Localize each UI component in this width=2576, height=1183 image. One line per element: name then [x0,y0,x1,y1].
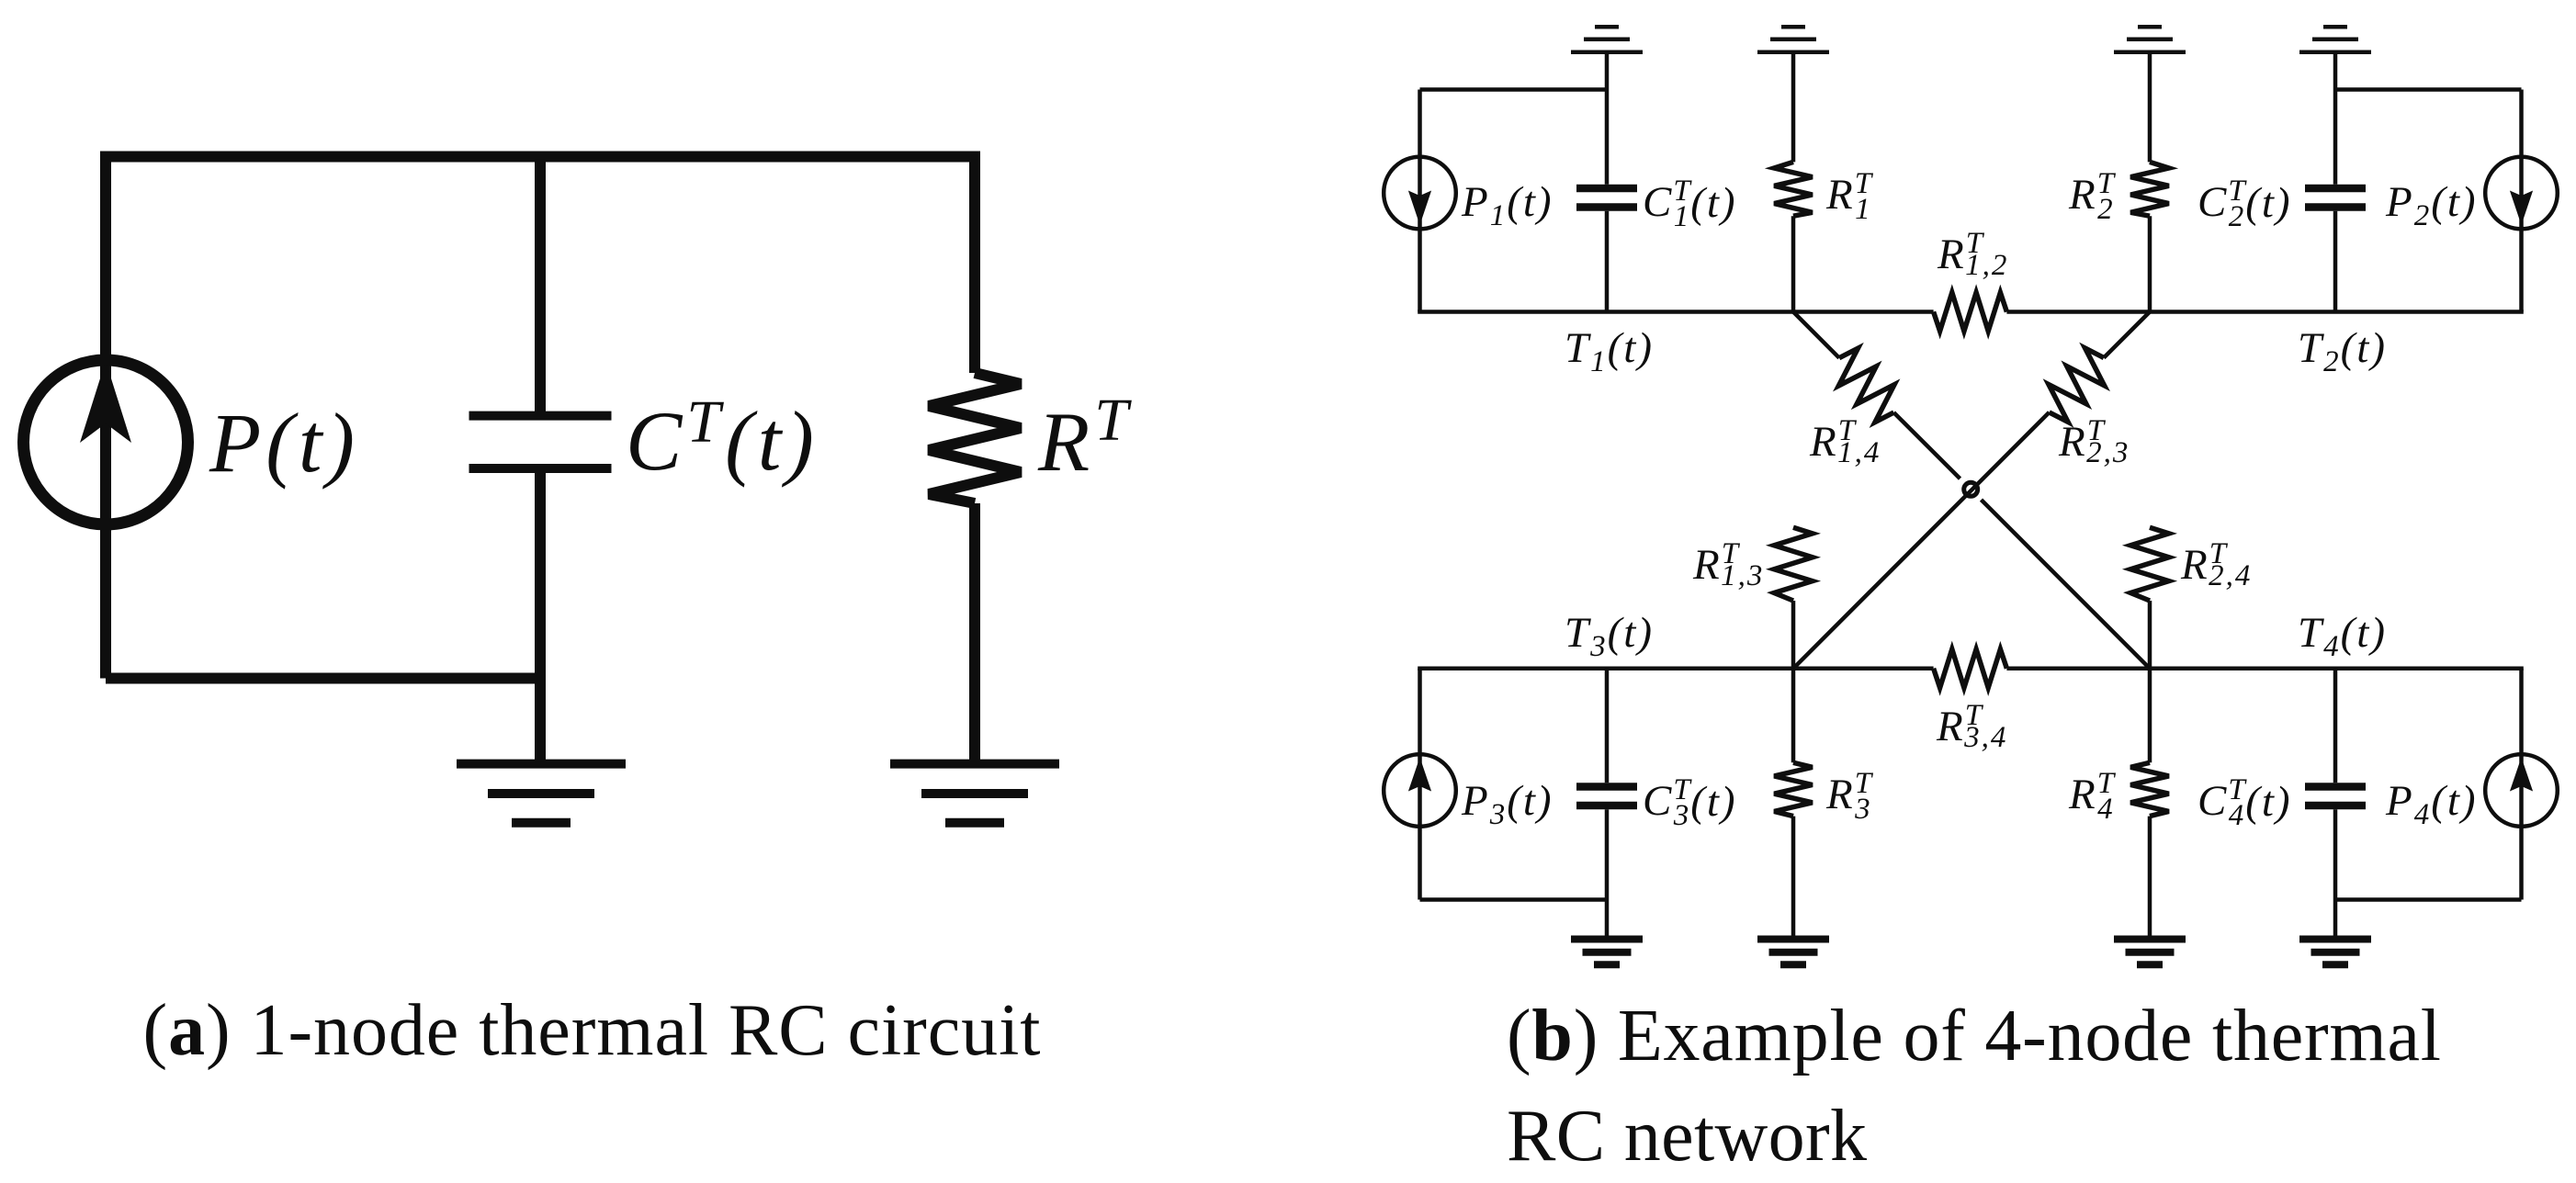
svg-text:CT4(t): CT4(t) [2198,773,2292,832]
svg-text:T1(t): T1(t) [1565,324,1654,378]
svg-text:P(t): P(t) [209,396,359,490]
svg-text:CT1(t): CT1(t) [1643,175,1737,233]
svg-text:RT4: RT4 [2068,767,2117,826]
svg-text:RC network: RC network [1507,1096,1867,1177]
svg-text:(a) 1-node thermal RC circuit: (a) 1-node thermal RC circuit [143,990,1041,1071]
svg-text:P3(t): P3(t) [1461,777,1554,831]
svg-text:CT2(t): CT2(t) [2198,175,2292,233]
svg-text:(b) Example of 4-node thermal: (b) Example of 4-node thermal [1507,996,2441,1076]
svg-text:T2(t): T2(t) [2298,324,2387,378]
svg-text:P1(t): P1(t) [1461,178,1554,232]
svg-text:RT2: RT2 [2068,167,2117,226]
svg-text:P2(t): P2(t) [2385,178,2478,232]
svg-text:RT3: RT3 [1825,767,1874,826]
svg-text:CT3(t): CT3(t) [1643,773,1737,832]
svg-text:T3(t): T3(t) [1565,609,1654,663]
svg-text:RT1: RT1 [1825,167,1874,226]
svg-text:P4(t): P4(t) [2385,777,2478,831]
svg-text:T4(t): T4(t) [2298,609,2387,663]
